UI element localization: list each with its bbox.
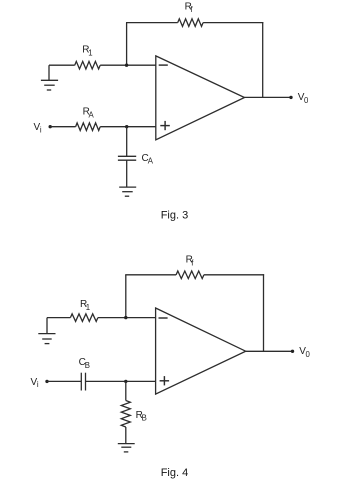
- op-amp U1 (top circuit): [156, 56, 245, 140]
- node: V0 output terminal (bottom): [291, 350, 294, 353]
- ground (below CA): [119, 187, 136, 196]
- svg-text:1: 1: [88, 48, 92, 57]
- svg-text:B: B: [142, 414, 147, 423]
- svg-text:i: i: [40, 125, 42, 134]
- capacitor CA: [118, 156, 136, 160]
- wire: ground to R1 (top): [49, 64, 75, 66]
- wire: Vi to CB: [47, 380, 81, 382]
- svg-text:B: B: [85, 361, 90, 370]
- wire: feedback top-right horizontal segment: [203, 22, 263, 24]
- node: non-inverting input junction (top): [125, 125, 128, 128]
- resistor Rf (top circuit feedback): [178, 19, 203, 27]
- node: Vi input terminal (top): [49, 125, 52, 128]
- svg-text:f: f: [190, 5, 193, 14]
- ground (top-left, at R1): [41, 65, 58, 90]
- wire: Vi to RA: [50, 126, 75, 128]
- ground (bottom circuit, at R1): [38, 318, 55, 344]
- wire: feedback right drop to output: [262, 22, 264, 97]
- wire: feedback riser from inverting-input node up (bottom circuit): [125, 275, 127, 318]
- wire: ground to R1 (bottom): [47, 317, 70, 319]
- resistor R1 (top circuit): [75, 61, 101, 69]
- svg-text:A: A: [89, 111, 95, 120]
- wire: junction down to CA: [126, 127, 128, 157]
- capacitor CB: [81, 373, 85, 391]
- wire: R1 to op-amp inverting input (bottom): [98, 317, 156, 319]
- svg-text:0: 0: [304, 96, 309, 105]
- op-amp U2 (bottom circuit): [156, 308, 246, 394]
- wire: feedback right drop to output (bottom circuit): [263, 274, 265, 351]
- node: V0 output terminal (top): [289, 96, 292, 99]
- resistor RB (vertical): [121, 401, 130, 428]
- svg-text:i: i: [37, 380, 39, 389]
- wire: RB down to ground: [125, 427, 127, 444]
- node: non-inverting input junction (bottom): [124, 380, 127, 383]
- wire: junction down to RB: [125, 381, 127, 400]
- ground (below RB): [118, 444, 135, 452]
- node: inverting input junction (top): [125, 63, 128, 66]
- svg-text:Fig. 4: Fig. 4: [161, 467, 189, 479]
- resistor RA: [76, 123, 101, 131]
- resistor R1 (bottom circuit): [70, 314, 98, 322]
- wire: op-amp output to V0 terminal (bottom): [246, 350, 293, 352]
- wire: RA to op-amp non-inverting input: [100, 126, 156, 128]
- wire: feedback riser from inverting-input node up (top circuit): [126, 23, 128, 66]
- wire: feedback top-left horizontal segment (bottom circuit): [125, 274, 176, 276]
- wire: R1 to op-amp inverting input: [100, 64, 156, 66]
- wire: CB to op-amp non-inverting input: [86, 380, 156, 382]
- resistor Rf (bottom circuit feedback): [176, 271, 204, 279]
- svg-text:f: f: [191, 258, 194, 267]
- svg-text:0: 0: [306, 350, 311, 359]
- wire: op-amp output to V0 terminal (top): [245, 96, 292, 98]
- wire: feedback top-left horizontal segment: [126, 22, 178, 24]
- svg-text:1: 1: [86, 303, 90, 312]
- svg-text:Fig. 3: Fig. 3: [161, 209, 189, 221]
- node: inverting input junction (bottom): [124, 316, 127, 319]
- wire: feedback top-right horizontal segment (bottom circuit): [204, 274, 264, 276]
- svg-text:A: A: [148, 157, 154, 166]
- wire: CA down to ground: [126, 160, 128, 187]
- node: Vi input terminal (bottom): [45, 380, 48, 383]
